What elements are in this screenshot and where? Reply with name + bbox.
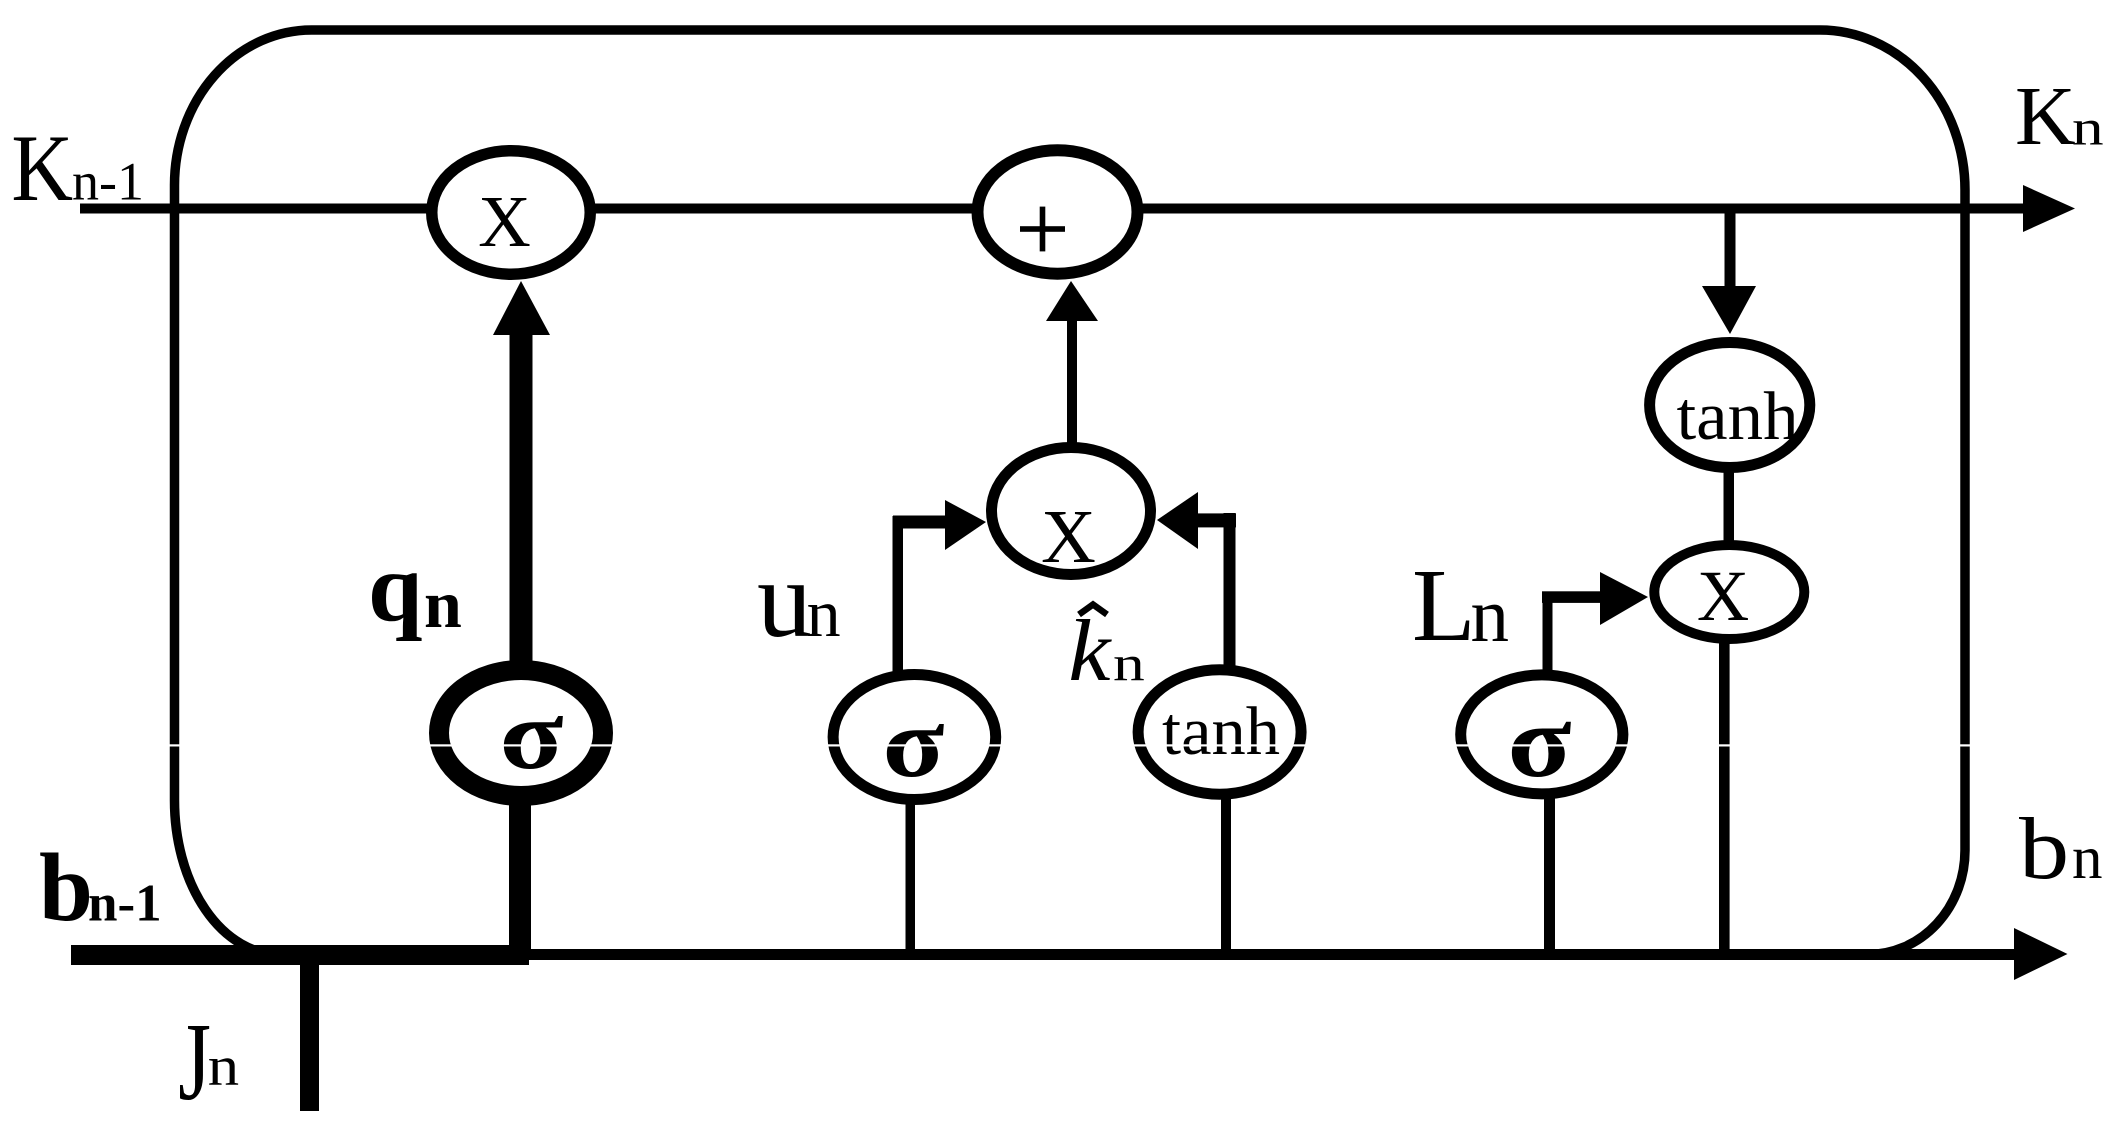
wire sigma2 top stem (893, 516, 904, 672)
svg-text:σ: σ (499, 679, 563, 790)
wire K line down to tanh3 shaft (1725, 209, 1736, 287)
wire sigma1 bottom stem (509, 800, 531, 956)
wire sigma3 top stem (1543, 594, 1553, 672)
hat accent over k (1079, 605, 1107, 615)
svg-text:n-1: n-1 (72, 152, 144, 212)
wire b bottom line (529, 949, 2015, 960)
svg-text:σ: σ (1507, 684, 1571, 799)
svg-text:n: n (807, 575, 841, 651)
arrowhead tanh2 into X2 (1157, 492, 1198, 549)
label J_n (178, 1001, 211, 1124)
wire X3 bottom stem (1719, 640, 1730, 956)
sigma1 gate ellipse bold (439, 670, 603, 796)
wire J_n input vertical (300, 945, 319, 1111)
svg-text:n: n (1471, 572, 1510, 658)
svg-text:X: X (1697, 555, 1749, 636)
svg-text:L: L (1412, 548, 1476, 663)
arrowhead K_n output (2023, 185, 2075, 232)
arrowhead sigma3 into X3 (1600, 572, 1648, 625)
wire b_n-1 thick input segment (71, 945, 529, 965)
tanh3 gate ellipse (1650, 343, 1810, 468)
svg-text:tanh: tanh (1676, 379, 1798, 455)
arrowhead down into tanh3 (1702, 286, 1756, 334)
wire tanh3 to X3 stem (1724, 468, 1735, 548)
multiplier X2 ellipse (992, 448, 1151, 575)
wire sigma2 horizontal into X2 (893, 516, 947, 529)
svg-text:n-1: n-1 (88, 875, 162, 933)
wire sigma3 bottom stem (1544, 795, 1555, 956)
svg-text:J: J (178, 1001, 211, 1124)
arrowhead into plus (1046, 281, 1098, 321)
svg-text:n: n (208, 1035, 239, 1097)
label b_n (2019, 800, 2069, 897)
svg-text:b: b (39, 834, 93, 941)
wire q thick arrow shaft sigma1 to X1 (510, 333, 533, 663)
wire X2 to plus arrow shaft (1067, 319, 1077, 445)
scan artifact white line (0, 744, 2120, 746)
cell body rounded rectangle (174, 30, 1965, 955)
arrowhead b_n output (2014, 928, 2068, 980)
svg-text:X: X (478, 181, 531, 262)
label K_n-1 (11, 115, 73, 221)
svg-text:tanh: tanh (1162, 693, 1280, 769)
svg-text:n: n (424, 566, 462, 642)
svg-text:n: n (2072, 100, 2104, 156)
svg-text:u: u (757, 538, 812, 660)
arrowhead q into X1 (493, 281, 550, 335)
multiplier X1 ellipse (432, 151, 591, 275)
svg-text:X: X (1041, 495, 1096, 579)
svg-text:σ: σ (882, 687, 944, 798)
arrowhead sigma2 into X2 (945, 500, 986, 550)
wire tanh2 top stem (1224, 513, 1236, 668)
sigma3 gate ellipse (1461, 675, 1623, 794)
svg-text:b: b (2019, 800, 2069, 897)
label k hat n (1068, 601, 1112, 699)
wire tanh2 horizontal into X2 (1197, 513, 1236, 527)
tanh2 gate ellipse (1138, 670, 1301, 794)
svg-text:K: K (11, 115, 73, 221)
wire tanh2 bottom stem (1221, 795, 1231, 956)
svg-text:K: K (2015, 70, 2076, 163)
adder plus ellipse (978, 150, 1138, 273)
sigma2 gate ellipse (833, 675, 996, 800)
wire sigma3 horizontal into X3 (1542, 591, 1602, 603)
wire sigma2 bottom stem (906, 800, 916, 956)
svg-text:n: n (1113, 636, 1145, 691)
multiplier X3 ellipse (1654, 545, 1804, 639)
wire K top line (80, 204, 2024, 214)
svg-text:q: q (368, 534, 423, 642)
plus sign (1020, 226, 1065, 232)
svg-text:n: n (2072, 825, 2103, 892)
